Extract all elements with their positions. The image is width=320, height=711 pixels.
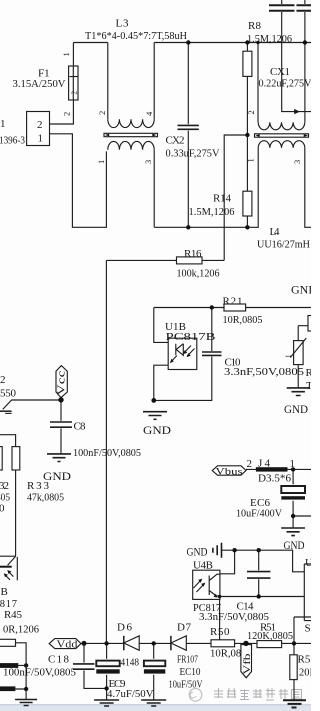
svg-text:GND: GND [284, 402, 308, 416]
svg-text:0: 0 [0, 503, 5, 515]
svg-text:2: 2 [62, 112, 72, 116]
svg-text:U4B: U4B [193, 560, 213, 572]
svg-text:CX2: CX2 [166, 135, 185, 147]
svg-text:GND: GND [143, 423, 171, 437]
svg-text:4148: 4148 [121, 658, 140, 669]
svg-text:120K,0805: 120K,0805 [247, 631, 293, 642]
svg-text:EC10: EC10 [180, 667, 201, 678]
svg-text:B: B [1, 586, 8, 598]
svg-text:1: 1 [38, 133, 44, 145]
svg-text:H1: H1 [0, 118, 5, 130]
svg-text:D6: D6 [117, 622, 133, 634]
svg-text:Vcc: Vcc [57, 370, 68, 396]
svg-text:UU16/27mH: UU16/27mH [257, 240, 310, 251]
svg-text:GND: GND [291, 283, 311, 297]
svg-text:C14: C14 [237, 601, 255, 613]
svg-text:C8: C8 [74, 421, 87, 433]
svg-text:32: 32 [0, 480, 9, 492]
svg-text:1.5M,1206: 1.5M,1206 [247, 34, 292, 45]
svg-text:100nF/50V,0805: 100nF/50V,0805 [3, 668, 76, 679]
svg-text:R2: R2 [306, 367, 312, 379]
svg-text:T1*6*4-0.45*7:7T,58uH: T1*6*4-0.45*7:7T,58uH [85, 31, 187, 42]
svg-text:2: 2 [246, 110, 256, 114]
svg-text:3.3nF/50V,0805: 3.3nF/50V,0805 [199, 612, 269, 623]
svg-text:100k,1206: 100k,1206 [177, 269, 220, 280]
svg-text:2: 2 [71, 91, 79, 95]
svg-text:Vdd: Vdd [57, 639, 78, 650]
svg-text:SE: SE [305, 623, 312, 635]
svg-text:47k,0805: 47k,0805 [27, 493, 64, 504]
svg-text:F1: F1 [38, 68, 50, 80]
svg-text:PC817B: PC817B [166, 331, 216, 343]
svg-text:10uF/50V: 10uF/50V [169, 680, 203, 691]
svg-text:GND: GND [284, 538, 305, 552]
svg-text:GND: GND [187, 545, 208, 559]
svg-text:R45: R45 [4, 609, 23, 621]
svg-text:0R,1206: 0R,1206 [3, 625, 39, 636]
svg-text:4.7uF/50V: 4.7uF/50V [107, 689, 154, 700]
svg-text:U: U [305, 557, 311, 569]
svg-text:1: 1 [285, 354, 293, 358]
svg-text:R50: R50 [210, 626, 230, 638]
svg-text:1: 1 [96, 160, 106, 164]
svg-text:2: 2 [37, 119, 43, 131]
svg-text:R33: R33 [27, 480, 50, 492]
svg-text:D7: D7 [177, 622, 192, 634]
svg-text:CX1: CX1 [270, 66, 290, 78]
svg-text:20K: 20K [299, 668, 311, 679]
svg-text:10uF/400V: 10uF/400V [236, 509, 282, 520]
svg-text:10R,0805: 10R,0805 [223, 315, 263, 326]
svg-text:1.5M,1206: 1.5M,1206 [189, 207, 235, 218]
svg-text:550: 550 [0, 388, 17, 400]
svg-text:J4: J4 [258, 458, 271, 470]
svg-text:3.15A/250V: 3.15A/250V [13, 79, 66, 90]
svg-text:Vbus: Vbus [216, 468, 243, 478]
svg-text:R53: R53 [298, 654, 312, 666]
svg-text:2: 2 [0, 374, 6, 386]
svg-text:2: 2 [247, 458, 253, 470]
svg-text:0.33uF,275V: 0.33uF,275V [166, 149, 220, 160]
svg-text:1: 1 [246, 158, 256, 162]
svg-text:R21: R21 [223, 296, 243, 308]
svg-text:1: 1 [61, 52, 71, 56]
svg-text:R16: R16 [184, 248, 202, 260]
svg-text:R14: R14 [213, 193, 232, 205]
svg-text:FR107: FR107 [177, 655, 198, 666]
svg-text:EC6: EC6 [250, 497, 271, 509]
svg-text:1396-3: 1396-3 [0, 136, 25, 147]
svg-text:TT: TT [306, 380, 311, 392]
svg-text:100nF/50V,0805: 100nF/50V,0805 [73, 448, 141, 459]
svg-text:L3: L3 [116, 18, 130, 30]
svg-text:3: 3 [292, 160, 302, 164]
svg-text:Vfb: Vfb [242, 653, 253, 674]
svg-text:D3.5*6: D3.5*6 [258, 474, 291, 485]
svg-text:2: 2 [97, 111, 107, 115]
svg-text:L4: L4 [270, 226, 281, 238]
svg-text:3.3nF,50V,0805: 3.3nF,50V,0805 [224, 367, 304, 378]
svg-text:R8: R8 [248, 20, 262, 32]
svg-text:C18: C18 [48, 654, 70, 666]
svg-text:3: 3 [143, 160, 153, 164]
svg-text:0.22uF,275V: 0.22uF,275V [259, 79, 312, 90]
